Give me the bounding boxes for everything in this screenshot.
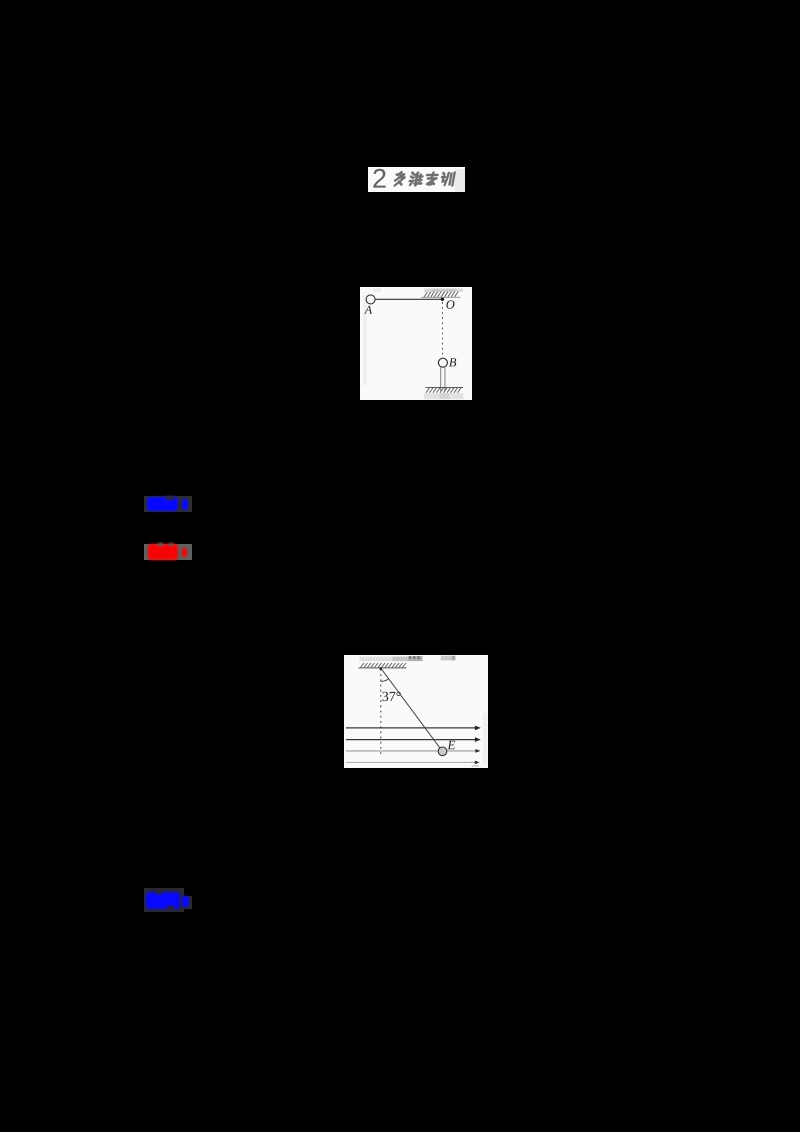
field line 4 (346, 761, 480, 765)
char 维 (409, 173, 423, 186)
figure 2: pendulum at 37 deg in field (344, 655, 488, 768)
ball A (366, 295, 375, 304)
field line 2 (346, 737, 481, 742)
blue colon (182, 896, 188, 907)
ceiling grey band (424, 289, 463, 292)
faint edge shading (483, 713, 488, 765)
analysis badge (red) (144, 544, 192, 560)
dashed plumb line O to B (442, 302, 444, 355)
floor grey band (424, 393, 464, 399)
ceiling hatching (361, 663, 407, 667)
svg-text:B: B (449, 355, 457, 369)
header badge "2 多维专训" (368, 167, 465, 192)
solution badge extension (182, 896, 192, 909)
CJK title strokes 多维专训 (394, 172, 454, 186)
ceiling hatching (424, 292, 458, 297)
answer badge (blue) (144, 496, 192, 512)
blue label text blob (146, 892, 180, 909)
ceiling line (421, 296, 461, 298)
blue label text blob (147, 497, 179, 512)
floor hatching (426, 388, 461, 393)
string A to O (375, 298, 442, 300)
attachment dot at O (441, 298, 444, 301)
erased header grey patches (360, 657, 393, 662)
angle arc (381, 679, 389, 682)
svg-text:2: 2 (372, 167, 387, 192)
red colon (182, 548, 188, 558)
ceiling line (359, 667, 407, 669)
faint scan shading (363, 295, 367, 385)
char 多 (394, 172, 405, 186)
svg-text:37°: 37° (382, 690, 402, 705)
pivot dot (379, 667, 382, 670)
svg-text:A: A (364, 303, 373, 317)
ball B (438, 358, 447, 367)
field line 3 (346, 749, 480, 753)
ball E (438, 747, 447, 756)
svg-text:O: O (446, 298, 455, 312)
blue colon (182, 499, 188, 510)
char 专 (425, 173, 438, 185)
char 训 (441, 173, 455, 186)
pendulum string (381, 668, 440, 748)
floor line (426, 386, 464, 388)
figure 1: ball A on string to O, ball B on stand (360, 287, 472, 400)
svg-text:E: E (446, 737, 455, 752)
dotted plumb line (380, 669, 382, 756)
field line 1 (346, 726, 481, 731)
stand pillar (441, 367, 445, 391)
red label text blob (148, 544, 178, 560)
solution badge (blue, larger) (144, 888, 184, 912)
